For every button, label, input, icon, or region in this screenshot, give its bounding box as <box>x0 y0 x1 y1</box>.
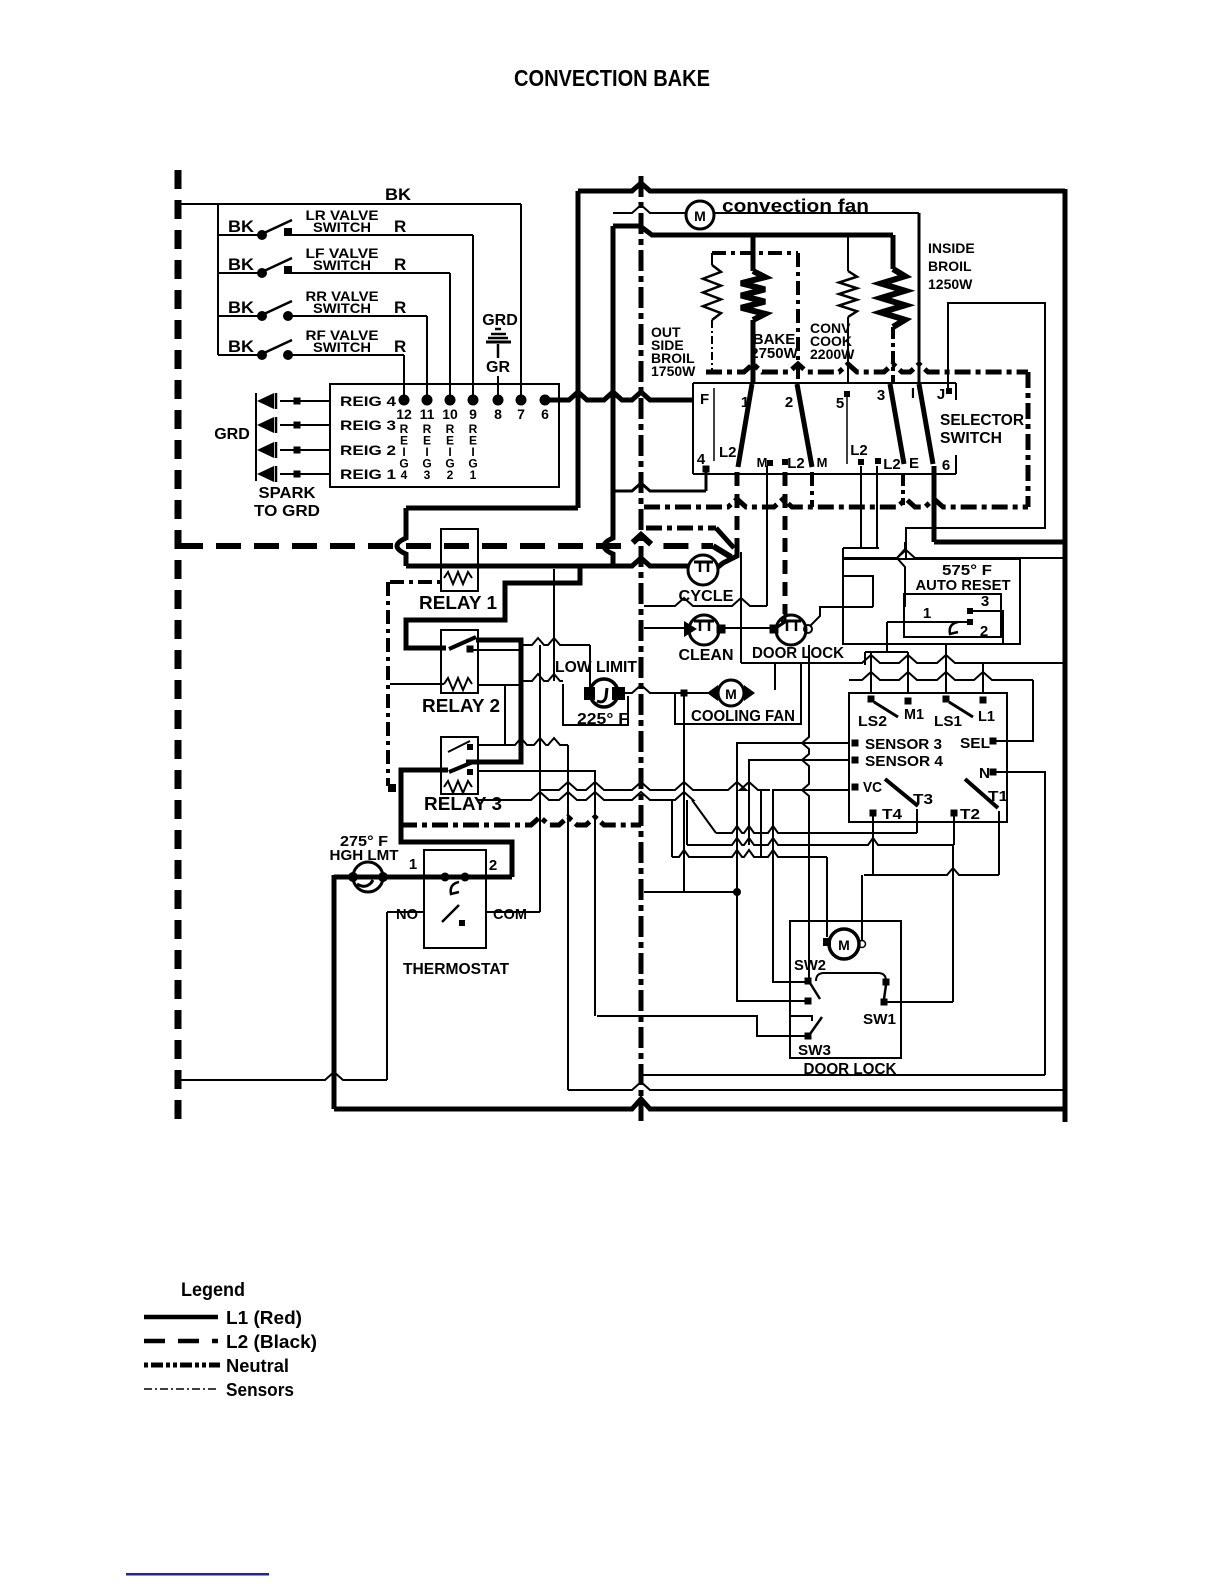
wire L1 step to relay2 <box>406 566 580 648</box>
wire N out <box>996 772 1045 1075</box>
wire L1 bottom rail <box>334 1099 1065 1109</box>
heater dash-dot sub-bus <box>712 251 798 255</box>
junction neutral-relay3 <box>388 784 396 792</box>
contact SENSOR 3 <box>852 740 859 747</box>
svg-text:SW1: SW1 <box>863 1011 896 1028</box>
wire auto reset 2 <box>887 621 967 623</box>
wire L2 drop to door lock <box>783 472 788 614</box>
legend Sensors line <box>144 1388 218 1390</box>
contact VC <box>852 784 859 791</box>
auto reset contacts <box>967 608 973 614</box>
svg-text:BROIL: BROIL <box>928 258 972 274</box>
svg-text:7: 7 <box>517 406 525 422</box>
wire branch y681 <box>523 674 563 681</box>
svg-text:SWITCH: SWITCH <box>313 340 371 355</box>
svg-text:REIG 4: REIG 4 <box>340 393 396 409</box>
wire neutral heater bus <box>706 364 1028 372</box>
wire selector d lead <box>876 466 878 548</box>
wire auto reset 3 <box>973 611 1003 644</box>
svg-text:T3: T3 <box>913 791 933 808</box>
svg-text:SWITCH: SWITCH <box>313 301 371 316</box>
svg-text:SELECTOR: SELECTOR <box>940 412 1024 429</box>
wire L2 drop blade1 to cycle <box>735 472 740 552</box>
switch LR valve switch <box>218 234 258 236</box>
wire fan feed <box>613 205 686 213</box>
wire inside broil upper lead <box>891 235 896 269</box>
svg-text:1: 1 <box>409 856 417 873</box>
wire cycle right drop <box>740 552 742 663</box>
wire L1 left vertical (to HGH LMT) <box>332 875 337 1109</box>
selector contact d <box>875 458 881 464</box>
wire selector L2c drop <box>860 466 862 548</box>
wire cooling fan junction drop <box>683 696 685 892</box>
wire thin to relay2 coil <box>390 683 444 685</box>
spark module terminals 12-6 <box>399 395 410 406</box>
selector blade 3 <box>890 384 904 464</box>
svg-text:4: 4 <box>401 468 408 482</box>
svg-text:L2: L2 <box>787 455 805 472</box>
wire low limit bypass <box>563 684 628 725</box>
svg-text:M: M <box>817 455 828 470</box>
wire T4 drop <box>872 816 874 875</box>
wire bottom row B <box>568 1082 1064 1090</box>
wire relay2 aux contact lead <box>472 649 519 651</box>
wire SW3 feed <box>597 1016 805 1036</box>
wire inside broil lower lead (dash-dot) <box>891 327 895 384</box>
switch linkage SW2-SW1 <box>816 973 886 981</box>
svg-text:8: 8 <box>494 406 502 422</box>
svg-text:L1 (Red): L1 (Red) <box>226 1308 302 1328</box>
wire step y800-y833 <box>692 800 716 833</box>
motor M door lock <box>829 929 859 959</box>
svg-text:3: 3 <box>877 387 885 404</box>
svg-text:2750W: 2750W <box>750 345 798 362</box>
svg-text:NO: NO <box>396 906 418 923</box>
legend Neutral line <box>144 1363 220 1368</box>
junction x737 <box>733 888 741 896</box>
wire low limit left feed <box>589 645 591 689</box>
svg-text:GRD: GRD <box>214 426 250 443</box>
relay R2 contact <box>449 637 476 649</box>
wire selector M drop <box>766 466 768 606</box>
wire neutral lower horizontal <box>644 499 1028 507</box>
wire relay2 out (thick) <box>466 640 521 762</box>
wire row y833 (to T3) <box>716 826 917 833</box>
contact blade T1 <box>965 779 998 808</box>
wire riser x865 <box>864 652 866 665</box>
wire row y558 <box>843 550 1063 558</box>
wire door lock right to staircase <box>810 607 873 626</box>
svg-text:Sensors: Sensors <box>226 1380 294 1400</box>
svg-text:RELAY 2: RELAY 2 <box>422 696 500 716</box>
svg-text:R: R <box>394 298 406 317</box>
svg-text:BK: BK <box>228 255 255 274</box>
wire SW3 fixed lead <box>790 1016 812 1021</box>
svg-text:2: 2 <box>447 468 454 482</box>
wire L2 dashed bus <box>178 535 713 546</box>
wire bake upper lead <box>751 235 756 271</box>
wire NO lead <box>387 911 424 913</box>
wire BK top bus <box>178 203 521 205</box>
contact L1 <box>980 697 987 704</box>
legend L1 line <box>144 1315 218 1320</box>
wire L2 left dashed vertical bus <box>175 170 182 1123</box>
svg-text:RELAY 1: RELAY 1 <box>419 593 497 613</box>
svg-text:LOW LIMIT: LOW LIMIT <box>555 659 637 676</box>
wire relay2 to relay3 upper <box>504 685 506 745</box>
svg-text:T4: T4 <box>882 806 903 823</box>
svg-text:1750W: 1750W <box>651 363 696 379</box>
spark gap electrodes <box>257 393 274 409</box>
selector switch box <box>693 382 956 384</box>
switch SW2 <box>805 978 812 985</box>
svg-text:LS1: LS1 <box>934 713 962 730</box>
wire L1 heater top bus <box>613 226 893 235</box>
svg-text:T1: T1 <box>988 788 1008 805</box>
svg-text:J: J <box>937 386 945 403</box>
wire neutral to relay1 coil <box>390 580 444 584</box>
wire L2 bus elbow to cycle junction <box>713 546 731 557</box>
spark module box <box>330 384 559 487</box>
wire door lock solenoid drop <box>802 645 809 978</box>
relay R3 lower contact <box>449 762 473 772</box>
svg-text:RELAY 3: RELAY 3 <box>424 794 502 814</box>
wire clean to door lock <box>723 627 771 629</box>
wire neutral center dash-dot vertical bus <box>639 176 644 1121</box>
svg-text:LS2: LS2 <box>858 713 887 730</box>
switch CYCLE <box>688 555 718 585</box>
svg-text:M: M <box>694 208 706 224</box>
wire row y790 <box>540 782 770 790</box>
thermostat NO contact <box>442 905 459 922</box>
wire L1 to cycle <box>406 558 688 566</box>
contact T2 <box>951 810 958 817</box>
wire selector d drop <box>876 466 878 548</box>
wire riser x761 <box>760 790 762 857</box>
svg-text:5: 5 <box>836 395 844 412</box>
svg-text:BK: BK <box>385 185 412 204</box>
svg-text:Legend: Legend <box>181 1280 245 1301</box>
wire neutral riser to selector <box>810 472 814 507</box>
switch SW1 <box>883 979 890 986</box>
svg-text:L2: L2 <box>719 444 737 461</box>
wire conv cook upper lead <box>847 235 849 271</box>
wire row y628 to clean <box>644 627 686 629</box>
wire riser x687 <box>686 800 688 845</box>
svg-text:Neutral: Neutral <box>226 1356 289 1376</box>
svg-text:CYCLE: CYCLE <box>679 588 734 605</box>
wire row y857 (to door motor) <box>672 850 827 857</box>
wire L1 riser <box>982 663 984 694</box>
svg-text:L1: L1 <box>978 708 995 725</box>
wire L1 relay feed vertical <box>397 508 406 566</box>
wire spark gap common <box>255 393 257 481</box>
svg-text:12: 12 <box>396 406 412 422</box>
wire NO to left dashed bus <box>178 1072 387 1080</box>
wire selector 6 drop (thick) <box>932 466 937 542</box>
svg-text:AUTO RESET: AUTO RESET <box>916 577 1011 594</box>
wire staircase a <box>843 547 879 549</box>
wire bake lower lead <box>751 320 756 384</box>
svg-text:TO GRD: TO GRD <box>254 503 320 520</box>
relay R2 coil <box>444 678 472 690</box>
heating element BAKE 2750W <box>741 271 765 320</box>
wire thermostat main row (thick) <box>334 875 512 880</box>
wire row y845 (to T2/SW1) <box>687 838 953 845</box>
svg-text:SEL: SEL <box>960 735 990 752</box>
wire neutral riser below blade 3 <box>901 474 905 505</box>
door lock box <box>790 921 901 1058</box>
svg-text:SENSOR 4: SENSOR 4 <box>865 753 944 770</box>
wire J loop <box>906 303 1045 559</box>
wire COM lead <box>486 911 540 913</box>
relay R1 coil <box>444 572 472 584</box>
wire SW1 out <box>887 1001 953 1003</box>
relay R1 box <box>441 529 478 591</box>
legend L2 line <box>144 1339 218 1344</box>
svg-text:SWITCH: SWITCH <box>940 430 1002 447</box>
wire riser x905 <box>897 542 905 607</box>
svg-text:R: R <box>394 255 406 274</box>
selector blade I <box>919 384 933 464</box>
wire relay2 coil right lead <box>478 684 519 686</box>
wire auto reset 2 drop <box>865 622 887 652</box>
svg-text:M: M <box>838 937 850 953</box>
contact blade T3 <box>885 779 918 806</box>
switch LOW LIMIT 225F <box>590 679 618 707</box>
wire row y652 <box>865 651 908 653</box>
svg-text:SW2: SW2 <box>794 957 826 974</box>
svg-text:9: 9 <box>469 406 477 422</box>
wire LS1 riser <box>945 644 947 694</box>
wire terminal 7 to BK bus <box>520 204 522 395</box>
svg-text:M: M <box>757 455 768 470</box>
contact LS1 <box>943 696 950 703</box>
heating element OUT SIDE BROIL 1750W <box>703 265 721 320</box>
wire door motor right riser <box>861 875 863 940</box>
svg-text:CONVECTION BAKE: CONVECTION BAKE <box>514 65 710 91</box>
svg-text:6: 6 <box>942 457 950 474</box>
neutral riser right of bake <box>796 253 800 384</box>
contact M1 <box>905 698 912 705</box>
svg-text:3: 3 <box>424 468 431 482</box>
wire row y800 <box>477 792 693 800</box>
wire cooling fan bypass <box>675 663 801 724</box>
decorative blue rule <box>126 1573 269 1576</box>
thermostat AUTO RESET outer box <box>843 559 1020 644</box>
switch CLEAN <box>689 615 719 645</box>
svg-text:L2: L2 <box>883 456 901 473</box>
svg-text:1250W: 1250W <box>928 276 973 292</box>
svg-text:COOLING FAN: COOLING FAN <box>691 708 795 725</box>
wire cooling fan right riser <box>774 663 776 690</box>
wire T1 drop to motor row <box>998 811 1000 875</box>
wire L1 to right border <box>934 540 1065 545</box>
svg-text:VC: VC <box>863 779 882 796</box>
wire sensor3 lead <box>737 743 849 889</box>
svg-text:2200W: 2200W <box>810 346 855 362</box>
junction cooling fan feed <box>681 690 688 697</box>
svg-text:SWITCH: SWITCH <box>313 220 371 235</box>
wire relay3 lower out <box>478 771 595 1016</box>
switch LF valve switch <box>218 272 258 274</box>
svg-text:E: E <box>909 455 919 472</box>
wire outside broil lower lead (sensor dash-dot) <box>711 320 713 370</box>
wire cycle feed elbow <box>718 550 737 567</box>
wire relay3 out left (thick) <box>401 770 512 877</box>
wire conv cook lower lead <box>847 317 849 384</box>
svg-text:GRD: GRD <box>482 312 518 329</box>
wire relay3 upper out <box>478 738 568 745</box>
svg-text:I: I <box>911 385 915 402</box>
svg-text:CLEAN: CLEAN <box>679 647 734 664</box>
relay R2 box <box>441 630 478 693</box>
thermostat box <box>424 850 486 948</box>
wire neutral branch y528 <box>646 526 716 531</box>
svg-text:REIG 2: REIG 2 <box>340 442 396 458</box>
wire staircase b <box>842 548 844 607</box>
svg-text:6: 6 <box>541 406 549 422</box>
relay R3 box <box>441 737 478 794</box>
svg-text:COM: COM <box>493 906 527 923</box>
motor M convection fan <box>686 201 714 229</box>
selector contact 5 <box>844 391 850 397</box>
svg-text:INSIDE: INSIDE <box>928 240 975 256</box>
svg-text:2: 2 <box>980 623 988 640</box>
svg-text:THERMOSTAT: THERMOSTAT <box>403 961 509 978</box>
wire L1 vertical x578 <box>576 191 581 508</box>
wire GR to terminal 8 <box>497 376 499 395</box>
svg-text:1: 1 <box>470 468 477 482</box>
ground symbol GRD <box>495 328 501 331</box>
svg-text:GR: GR <box>486 359 510 376</box>
wire fan return vertical to selector I <box>918 213 921 384</box>
svg-text:SENSOR 3: SENSOR 3 <box>865 736 942 753</box>
control box (sensors) <box>849 693 1007 822</box>
wire row y680 <box>849 672 1033 680</box>
svg-text:R: R <box>394 337 406 356</box>
svg-text:2: 2 <box>785 394 793 411</box>
wire outside broil upper lead <box>711 253 713 265</box>
wire sensor4 lead <box>749 760 849 845</box>
wire M1 riser <box>907 652 909 694</box>
svg-text:L2 (Black): L2 (Black) <box>226 1332 317 1352</box>
wire selector L2c lead <box>860 466 862 548</box>
switch DOOR LOCK coil <box>776 615 806 645</box>
wire L1 top horizontal bus <box>578 183 1065 191</box>
wire neutral enclosure right vertical <box>1026 372 1031 507</box>
wire SW1 riser <box>952 845 954 1002</box>
svg-text:M1: M1 <box>904 706 924 723</box>
svg-text:2: 2 <box>489 857 497 874</box>
wire relay2 out to low limit <box>523 638 590 645</box>
svg-text:M: M <box>725 686 737 702</box>
auto reset inner box <box>904 594 1001 637</box>
wire neutral lower horizontal (relay3 to center) <box>401 817 641 825</box>
svg-text:T2: T2 <box>960 806 980 823</box>
contact LS2 <box>868 696 875 703</box>
wire L2 door lock elbow <box>776 612 785 628</box>
heating element INSIDE BROIL 1250W <box>881 269 905 327</box>
svg-text:BK: BK <box>228 217 255 236</box>
switch HGH LMT 275F <box>353 862 383 892</box>
relay R3 coil <box>444 781 472 793</box>
wire door motor left riser <box>826 857 828 937</box>
selector blade 2 <box>797 384 812 467</box>
svg-text:4: 4 <box>697 451 706 468</box>
wire low limit to cooling fan <box>624 685 714 693</box>
svg-text:3: 3 <box>981 593 989 610</box>
wire bottom row A <box>642 1074 1045 1076</box>
switch RR valve switch <box>218 315 258 317</box>
svg-text:N: N <box>979 765 990 782</box>
wire VC lead <box>773 790 849 982</box>
wire selector 4 to left <box>613 483 706 491</box>
wire sensor3 drop <box>737 895 805 1001</box>
svg-text:R: R <box>394 217 406 236</box>
svg-text:1: 1 <box>923 605 931 622</box>
svg-text:L2: L2 <box>850 442 868 459</box>
wire L1 relay feed upper <box>406 506 578 511</box>
svg-text:REIG 3: REIG 3 <box>340 417 396 433</box>
heating element CONV COOK 2200W <box>839 271 857 317</box>
wire thermostat COM riser <box>539 645 541 912</box>
switch RF valve switch <box>218 354 258 356</box>
selector F contact line <box>713 388 715 461</box>
wire L1 vertical x613 <box>604 226 613 566</box>
svg-text:SWITCH: SWITCH <box>313 258 371 273</box>
wire row y663 <box>741 655 1065 663</box>
contact T4 <box>870 810 877 817</box>
relay R3 upper contact <box>448 741 470 752</box>
svg-text:11: 11 <box>420 406 435 422</box>
wire LS2 riser <box>870 652 872 694</box>
svg-text:REIG 1: REIG 1 <box>340 466 396 482</box>
motor M COOLING FAN <box>718 680 744 706</box>
wire SEL out <box>996 680 1033 741</box>
wire row y892 <box>644 891 734 893</box>
wire NO drop <box>386 912 388 1080</box>
svg-text:F: F <box>700 391 709 408</box>
wire neutral left vertical <box>386 582 390 786</box>
svg-text:HGH LMT: HGH LMT <box>330 847 399 864</box>
wire neutral branch elbow <box>716 528 734 548</box>
svg-text:BK: BK <box>228 337 255 356</box>
wire row y606 <box>644 598 767 606</box>
svg-text:10: 10 <box>442 406 458 422</box>
switch SW3 <box>805 1033 812 1040</box>
thermostat upper contacts <box>441 873 450 882</box>
wire BK switch feeder vertical <box>217 204 219 355</box>
svg-text:BK: BK <box>228 298 255 317</box>
wire L1 right vertical border <box>1063 189 1068 1122</box>
selector blade 1 <box>738 384 752 467</box>
wire selector 4 drop <box>705 472 708 491</box>
wire riser x672 <box>671 800 673 857</box>
svg-text:DOOR LOCK: DOOR LOCK <box>752 645 844 662</box>
svg-text:SW3: SW3 <box>798 1042 831 1059</box>
wire riser x554 <box>553 569 555 681</box>
wire terminal 6 to selector (thick) <box>545 392 694 400</box>
wire staircase c <box>843 576 873 607</box>
wire T2 drop <box>953 813 955 845</box>
wire fan return <box>714 212 919 214</box>
svg-text:SPARK: SPARK <box>259 485 316 502</box>
contact SENSOR 4 <box>852 757 859 764</box>
